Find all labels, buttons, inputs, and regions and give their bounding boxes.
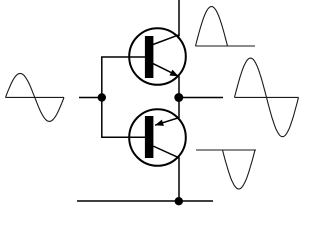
wire emitter Q1 to node <box>178 76 180 98</box>
wire base Q1 <box>101 56 145 58</box>
wire base bus vertical <box>101 57 103 137</box>
bottom output waveform axis <box>196 149 256 151</box>
wire bottom rail <box>77 200 213 202</box>
wire collector Q2 to rail <box>178 157 180 201</box>
output waveform axis <box>235 96 299 98</box>
input sine wave <box>6 73 65 121</box>
transistor Q2 <box>129 109 186 166</box>
node rail junction <box>175 197 183 205</box>
input waveform axis <box>6 96 65 98</box>
wire collector Q1 to top <box>178 0 180 37</box>
transistor Q1 <box>129 28 186 85</box>
top output half-sine hump <box>196 7 228 47</box>
bottom output half-sine valley <box>223 150 256 189</box>
top output waveform axis <box>196 45 256 47</box>
node output junction <box>174 93 183 102</box>
wire output stub <box>179 97 223 99</box>
output sine wave <box>235 58 299 137</box>
wire emitter Q2 to node <box>178 98 180 119</box>
node input junction <box>98 93 106 101</box>
wire input lead <box>79 97 102 99</box>
wire base Q2 <box>101 136 145 138</box>
